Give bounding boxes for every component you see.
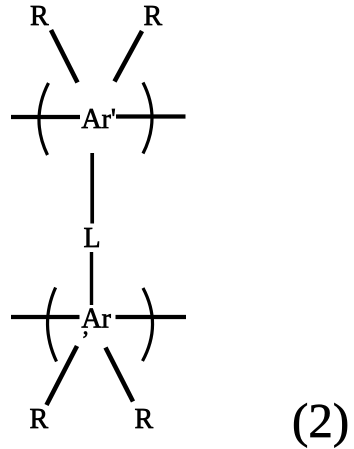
svg-text:Ar': Ar' bbox=[81, 104, 116, 135]
parenthesis left (bottom group) bbox=[48, 288, 57, 362]
bond right horizontal (bottom) bbox=[116, 315, 187, 319]
bond Ar to R(bottom-right) bbox=[106, 348, 134, 402]
bond right horizontal (top) bbox=[116, 114, 186, 118]
svg-text:R: R bbox=[30, 1, 49, 32]
parenthesis left (top group) bbox=[39, 83, 49, 155]
svg-text:R: R bbox=[30, 404, 49, 435]
bond R(top-right) to Ar' bbox=[115, 31, 143, 82]
bond left horizontal (top) bbox=[11, 115, 80, 119]
svg-text:(2): (2) bbox=[292, 393, 349, 448]
svg-text:R: R bbox=[144, 1, 163, 32]
parenthesis right (top group) bbox=[143, 83, 152, 154]
bond Ar' to L bbox=[90, 153, 94, 224]
parenthesis right (bottom group) bbox=[143, 288, 153, 361]
bond L to Ar bbox=[90, 252, 93, 305]
bond Ar to R(bottom-left) bbox=[47, 346, 78, 405]
svg-text:,: , bbox=[83, 314, 89, 340]
svg-text:L: L bbox=[84, 223, 101, 254]
bond left horizontal (bottom) bbox=[11, 315, 80, 319]
svg-text:R: R bbox=[135, 404, 154, 435]
bond R(top-left) to Ar' bbox=[51, 30, 78, 83]
